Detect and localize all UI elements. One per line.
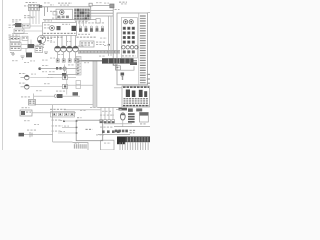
- ground symbol 2: [21, 55, 25, 57]
- key cylinder symbol: [120, 113, 125, 120]
- terminal strip 2: [76, 81, 81, 89]
- wire loop below band: [116, 64, 134, 71]
- legend text rows: [124, 98, 126, 99]
- condenser dark cylinder: [26, 53, 32, 58]
- lamp connectors row: [100, 120, 103, 123]
- ignition box: [43, 23, 77, 36]
- wires to right: [30, 25, 42, 27]
- label below ECM: [75, 143, 77, 144]
- connector box 2: [14, 29, 24, 33]
- module dark box: [57, 26, 61, 30]
- wire lower: [48, 74, 78, 76]
- wire: [21, 44, 28, 46]
- idle connector box: [96, 19, 100, 24]
- inline connector: [63, 75, 68, 79]
- verticals to ECM box: [108, 16, 110, 56]
- coil circle: [50, 26, 55, 31]
- wire to lamp cluster: [97, 106, 122, 108]
- inline connector: [63, 84, 68, 88]
- scan edge line: [1, 0, 4, 150]
- small dark box: [73, 92, 79, 95]
- power transistor dark square: [72, 26, 77, 31]
- battery label text: [26, 2, 28, 3]
- ribbon wires: [119, 142, 121, 150]
- wire stub into legend: [114, 87, 122, 89]
- idle switch box: [22, 107, 24, 108]
- resistor box: [10, 37, 20, 42]
- wire: [64, 109, 101, 111]
- thermo sensor: [21, 86, 25, 88]
- wires relay to ECM header: [90, 10, 114, 12]
- harness cross band: [78, 50, 120, 53]
- terminal cap node: [89, 3, 92, 6]
- wire drops: [27, 40, 29, 44]
- terminal strip: [76, 57, 81, 76]
- spark component: [121, 73, 125, 76]
- injector feed wires: [57, 36, 59, 47]
- bus wire: [104, 123, 132, 125]
- bus wire 2: [98, 134, 130, 136]
- tiny marks: [96, 134, 98, 135]
- top line extension: [148, 12, 151, 14]
- wire drop at x44: [44, 7, 46, 16]
- ground symbol: [12, 52, 14, 56]
- check connector circle: [63, 67, 66, 70]
- label box right: [140, 112, 149, 122]
- ignition switch connector: [110, 4, 114, 8]
- bulb label: [119, 108, 128, 111]
- distributor circle: [37, 35, 45, 43]
- labels below legend: [128, 108, 133, 111]
- hook wire: [113, 64, 117, 66]
- main bus wire: [78, 60, 137, 62]
- knock sensor: [27, 130, 29, 131]
- label box: [35, 47, 43, 53]
- label text: [50, 11, 52, 12]
- wire long: [34, 104, 94, 106]
- wire vertical run: [52, 105, 54, 142]
- injector connectors: [56, 59, 59, 62]
- diode component: [62, 73, 66, 76]
- wire to shield connector: [53, 141, 73, 143]
- fuse squares row low: [123, 50, 126, 53]
- dark blob left of band: [117, 137, 126, 144]
- label text rows: [9, 35, 11, 36]
- harness verticals: [29, 10, 31, 24]
- node dot: [108, 44, 110, 46]
- connector box: [23, 24, 31, 28]
- wire labels noise: [42, 65, 44, 66]
- labels left of injectors: [39, 44, 41, 45]
- circles row: [122, 46, 125, 49]
- wire ignition feed drop: [90, 6, 92, 20]
- wire to ignition switch: [92, 5, 110, 7]
- connector boxes: [10, 43, 21, 47]
- wire: [32, 112, 76, 114]
- terminal node: [38, 67, 41, 70]
- wire stubs J/B to droppers: [79, 20, 81, 26]
- legend skyline bars: [126, 90, 130, 98]
- wire: [30, 86, 62, 88]
- injector 2: [61, 46, 67, 52]
- labels under resistors: [78, 34, 80, 35]
- bus wire full: [114, 126, 150, 128]
- label right of distributor: [47, 38, 49, 39]
- harness drop through connectors: [66, 80, 68, 95]
- fusible link box FL1: [29, 4, 40, 7]
- injector 1: [55, 46, 61, 52]
- relay box 2: [80, 41, 94, 47]
- inner sub box: [121, 18, 137, 59]
- harness dark band: [102, 58, 134, 63]
- injector 3: [67, 46, 73, 52]
- fuse F1: [56, 67, 58, 70]
- pin list column: [140, 15, 146, 16]
- injector 4: [73, 46, 79, 52]
- wire drop at x47: [47, 7, 49, 12]
- junction block J/B grid: [74, 9, 89, 21]
- crossed squares: [115, 130, 118, 133]
- oxygen sensor: [33, 94, 35, 100]
- wire main feed: [40, 68, 78, 70]
- injector stubs: [57, 52, 59, 59]
- small connector below: [116, 66, 121, 70]
- coil blob: [28, 44, 35, 48]
- label in box: [122, 55, 124, 56]
- fuse squares rows: [123, 27, 126, 30]
- shield connector: [73, 143, 89, 150]
- relay box K1: [56, 9, 73, 19]
- bottom connector band: [117, 136, 150, 142]
- harness vertical band: [93, 61, 97, 108]
- wire: [30, 77, 62, 79]
- lamp feed verticals: [100, 107, 102, 119]
- tick: [122, 77, 123, 81]
- throttle sensor cluster: [21, 96, 23, 97]
- text row in box: [44, 33, 46, 34]
- stacked labels: [128, 113, 135, 115]
- labels right: [96, 42, 98, 43]
- relay contacts: [57, 16, 60, 19]
- label text in ignition box: [44, 24, 46, 25]
- text row below: [40, 37, 42, 38]
- labels between verticals: [100, 115, 102, 116]
- alternator blob: [15, 23, 22, 27]
- label text: [24, 15, 26, 16]
- ground symbol: [44, 51, 48, 53]
- notes right margin: [147, 74, 150, 75]
- wire battery feed to relay: [39, 5, 42, 8]
- legend box: [122, 86, 150, 107]
- diode row: [102, 130, 105, 133]
- wire bus top: [43, 19, 96, 21]
- band tip: [130, 62, 137, 65]
- ECM U1: [76, 120, 103, 141]
- ECM block outline: [117, 13, 148, 85]
- page background: [0, 0, 150, 150]
- fusible link box FL2: [29, 8, 40, 11]
- relay circles: [124, 20, 128, 24]
- labels + node: [52, 120, 54, 121]
- wire: [34, 95, 55, 97]
- bottom connector box: [101, 140, 115, 150]
- pin column separator: [138, 13, 140, 85]
- dropper resistors row: [79, 26, 81, 28]
- label top right corner: [119, 2, 121, 3]
- water temp sensor: [21, 77, 25, 79]
- label row: [50, 109, 52, 110]
- labels: [100, 127, 102, 128]
- sensor strip connectors: [51, 112, 75, 117]
- relay coil circle: [60, 10, 64, 14]
- label near ignition: [115, 9, 117, 10]
